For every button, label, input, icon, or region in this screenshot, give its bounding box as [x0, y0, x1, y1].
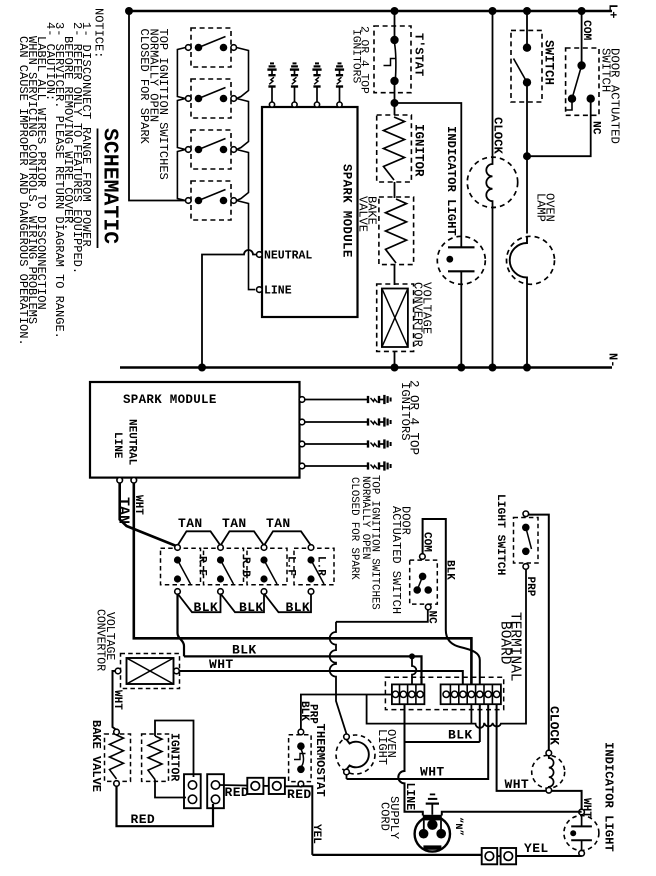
- wire: bake valve to voltage convertor: [394, 265, 396, 285]
- terminal board right block: [441, 684, 501, 704]
- svg-text:RED: RED: [225, 785, 250, 800]
- svg-text:SWITCH: SWITCH: [542, 40, 556, 85]
- svg-text:SPARK MODULE: SPARK MODULE: [340, 164, 354, 258]
- square connector 2: [269, 778, 285, 794]
- square connector 1: [247, 778, 263, 794]
- svg-text:NEUTRAL: NEUTRAL: [126, 419, 138, 466]
- terminal board left block: [392, 684, 425, 704]
- wire: WHT line to board r6: [347, 704, 489, 779]
- svg-text:R.F: R.F: [196, 556, 208, 576]
- wire: convertor WHT output to board r3: [179, 671, 463, 684]
- bake valve (schematic): [379, 197, 414, 265]
- wire: COM riser BLK to board r5: [423, 519, 480, 684]
- node: rail junction to clock: [489, 7, 497, 15]
- ignitor (wiring): [142, 734, 169, 781]
- wire: thermostat bottom to YEL drop: [301, 786, 312, 855]
- wire: rail to door switch COM: [581, 11, 583, 66]
- svg-text:BLK: BLK: [239, 600, 264, 615]
- node: rail junction to T-STAT: [391, 7, 399, 15]
- svg-text:TAN: TAN: [178, 516, 203, 531]
- node: NEUTRAL joins N- rail: [198, 364, 206, 372]
- svg-text:CLOCK: CLOCK: [547, 706, 562, 745]
- burner ignition switch 3 (wiring): [247, 548, 287, 585]
- svg-text:T'STAT: T'STAT: [412, 33, 426, 76]
- svg-text:ACTUATED SWITCH: ACTUATED SWITCH: [389, 506, 403, 614]
- wire: clock to N- rail: [492, 207, 494, 368]
- svg-text:BLK: BLK: [448, 728, 473, 743]
- wire: switch common down to BLK rail: [176, 594, 178, 633]
- wire: light switch top to clock riser: [529, 515, 549, 751]
- ignitor (schematic): [377, 115, 412, 182]
- spark module box (schematic): [262, 107, 358, 317]
- wire+electrode: ignitor 4 (wiring): [305, 465, 368, 467]
- wire: jumper line thermostat-net to light switch with hops: [367, 569, 526, 728]
- ground symbol at supply cord: [431, 804, 433, 815]
- svg-text:NC: NC: [426, 611, 438, 625]
- svg-text:BAKE VALVE: BAKE VALVE: [89, 720, 103, 792]
- svg-text:BLK: BLK: [232, 643, 257, 658]
- spark module box (wiring): [90, 382, 300, 478]
- node: rail junction to door actuated switch: [578, 7, 586, 15]
- wire+electrode: ignitor 3 (wiring): [305, 443, 368, 445]
- terminal: ignitor output 3 (wiring): [299, 441, 305, 447]
- wire: RED from bake valve to connector: [117, 786, 214, 826]
- burner ignition switch 1 (wiring): [161, 548, 201, 585]
- svg-text:WHT: WHT: [111, 690, 123, 710]
- spark ignitor electrode 1 (schematic): [269, 102, 274, 107]
- connector block 1: [184, 774, 201, 808]
- burner ignition switch 2 (wiring): [204, 548, 244, 585]
- svg-text:LIGHT: LIGHT: [375, 729, 389, 765]
- svg-text:YEL: YEL: [524, 841, 549, 856]
- wire: YEL line to squares: [312, 854, 481, 856]
- terminal: ignitor output 2 (wiring): [299, 419, 305, 425]
- spark ignitor electrode 4 (schematic): [337, 102, 342, 107]
- svg-text:CLOSED FOR SPARK: CLOSED FOR SPARK: [348, 477, 360, 580]
- svg-text:IGNITORS: IGNITORS: [398, 382, 412, 441]
- oven lamp (schematic): [507, 236, 555, 284]
- svg-text:LINE: LINE: [403, 783, 416, 811]
- svg-text:TAN: TAN: [222, 516, 247, 531]
- wire: left chain of ignition switches: [177, 48, 185, 99]
- wire: squares to thermostat: [263, 785, 268, 787]
- svg-text:N-: N-: [606, 353, 620, 367]
- wire: oven light feed with hops over rails: [330, 622, 347, 734]
- wire: L+ supply rail: [129, 10, 612, 13]
- wire: oven lamp to N- rail: [526, 284, 528, 368]
- svg-text:NEUTRAL: NEUTRAL: [264, 250, 312, 263]
- wire: NC line from door switch to oven light: [336, 610, 428, 622]
- svg-text:CORD: CORD: [378, 802, 392, 831]
- svg-text:WHT: WHT: [505, 777, 530, 792]
- wire: TAN from module with label: [120, 483, 178, 547]
- svg-text:CONVERTOR: CONVERTOR: [411, 282, 425, 347]
- thermostat (wiring): [289, 735, 312, 782]
- svg-text:L.F: L.F: [285, 556, 297, 576]
- wire: oven light bottom to WHT line: [346, 775, 348, 779]
- oven lamp switch (schematic): [511, 30, 542, 102]
- wire: WHT from module down and right to board: [134, 483, 472, 684]
- wire: clock bottom to indicator light top: [552, 791, 582, 810]
- svg-text:INDICATOR LIGHT: INDICATOR LIGHT: [602, 742, 616, 852]
- svg-text:SPARK MODULE: SPARK MODULE: [123, 393, 217, 407]
- svg-text:IGNITOR: IGNITOR: [168, 733, 181, 781]
- svg-text:COM: COM: [580, 20, 592, 41]
- wire: BLK rail to terminal board: [184, 656, 422, 684]
- svg-text:TAN: TAN: [266, 516, 291, 531]
- wire: rail to clock: [492, 11, 494, 158]
- svg-text:L.R: L.R: [315, 556, 327, 576]
- spark ignitor electrode 2 (schematic): [292, 102, 297, 107]
- svg-text:LINE: LINE: [264, 285, 292, 298]
- terminal: module NEUTRAL/WHT (wiring): [131, 477, 137, 483]
- svg-text:LIGHT SWITCH: LIGHT SWITCH: [494, 494, 506, 576]
- top ignition switch S3 (schematic): [191, 130, 231, 169]
- svg-text:LINE: LINE: [111, 432, 123, 459]
- svg-text:INDICATOR LIGHT: INDICATOR LIGHT: [444, 126, 458, 236]
- svg-text:LAMP: LAMP: [534, 193, 548, 222]
- svg-text:BOARD: BOARD: [497, 621, 513, 665]
- spark ignitor electrode 3 (schematic): [314, 102, 319, 107]
- node: rail junction to ignition switches: [125, 7, 133, 15]
- square connector 4: [501, 848, 516, 864]
- wire: board r4 down to jumper line: [470, 704, 472, 723]
- svg-text:BLK: BLK: [444, 560, 456, 580]
- wire+electrode: ignitor 1 (wiring): [305, 399, 368, 401]
- svg-text:R.B: R.B: [239, 557, 251, 577]
- terminal board dashed outline: [385, 677, 503, 709]
- wire: BLK chain linking switch bottoms: [178, 594, 221, 613]
- burner ignition switch 4 (wiring): [294, 548, 334, 585]
- terminal NEUTRAL (schematic): [257, 252, 263, 258]
- svg-text:CLOCK: CLOCK: [491, 117, 505, 155]
- indicator light (schematic): [437, 236, 485, 284]
- indicator light (wiring): [564, 816, 599, 851]
- svg-text:THERMOSTAT: THERMOSTAT: [313, 724, 327, 797]
- voltage convertor (schematic): [377, 284, 414, 351]
- wire: indicator light to N- rail: [460, 284, 462, 368]
- svg-text:BLK: BLK: [194, 600, 219, 615]
- wire: ignitor to bake valve: [394, 182, 396, 198]
- svg-text:IGNITOR: IGNITOR: [412, 124, 426, 177]
- wire: right chain of ignition switches to LINE: [237, 48, 249, 99]
- wire: ignitor top to connector block: [155, 721, 194, 778]
- svg-text:VALVE: VALVE: [356, 196, 370, 232]
- voltage convertor (wiring): [121, 654, 180, 689]
- svg-text:CONVERTOR: CONVERTOR: [94, 609, 107, 671]
- wire: TAN bus linking switch tops: [178, 531, 221, 545]
- wire: board r7 down to clock WHT line: [497, 704, 546, 791]
- title underline: [97, 129, 99, 249]
- wire: plug to indicator light WHT: [442, 812, 582, 816]
- wire: T-STAT to ignitor, node to indicator light: [394, 81, 396, 115]
- clock (schematic): [467, 157, 517, 207]
- svg-text:PRP: PRP: [524, 577, 536, 597]
- top ignition switch S4 (schematic): [191, 181, 231, 220]
- wire: N- rail: [120, 366, 612, 369]
- wire: door switch NC to oven lamp line: [527, 99, 591, 157]
- svg-text:“N”: “N”: [452, 817, 464, 836]
- svg-text:BLK: BLK: [286, 600, 311, 615]
- wire: convertor left to bake valve, WHT: [113, 671, 117, 730]
- wire: ignitor bottom to connector block: [155, 780, 186, 798]
- svg-text:RED: RED: [287, 787, 312, 802]
- wire: voltage convertor to N- rail: [394, 351, 396, 367]
- wire: LINE drop to supply cord with hop: [398, 742, 423, 816]
- terminal: ignitor output 1 (wiring): [299, 397, 305, 403]
- svg-text:PRP: PRP: [307, 704, 319, 724]
- svg-text:CLOSED FOR SPARK: CLOSED FOR SPARK: [137, 29, 151, 145]
- svg-text:CAN CAUSE IMPROPER AND DANGERO: CAN CAUSE IMPROPER AND DANGEROUS OPERATI…: [16, 36, 30, 346]
- wire: switch to oven lamp, NC junction: [526, 82, 528, 233]
- svg-text:WHT: WHT: [420, 765, 445, 780]
- svg-text:L+: L+: [606, 4, 620, 18]
- clock (wiring): [532, 755, 565, 788]
- wire: BLK rail branch to board c3 with hop: [412, 656, 416, 684]
- door actuated switch (wiring): [410, 560, 438, 604]
- wire: rail to T-STAT: [394, 11, 396, 40]
- connector block 2: [207, 774, 224, 808]
- wire+electrode: ignitor 2 (wiring): [305, 421, 368, 423]
- wire: indicator bottom to YEL squares: [516, 855, 582, 857]
- oven light (wiring): [336, 735, 375, 774]
- wire: board c2 down, BLK line and LINE drop: [405, 704, 480, 742]
- svg-text:RED: RED: [131, 812, 156, 827]
- terminal: module LINE/TAN (wiring): [117, 477, 123, 483]
- wire: feed to top ignition switches: [129, 11, 186, 201]
- door actuated switch (schematic): [566, 48, 599, 115]
- top ignition switch S1 (schematic): [191, 28, 231, 67]
- node: rail junction to oven lamp switch: [523, 7, 531, 15]
- svg-text:WHT: WHT: [209, 657, 234, 672]
- supply cord plug: [415, 816, 450, 851]
- wire: NEUTRAL to N- rail with crossover hop: [202, 250, 257, 368]
- svg-text:IGNITORS: IGNITORS: [350, 29, 362, 83]
- svg-text:YEL: YEL: [310, 824, 322, 844]
- wire: BLK riser from thermostat to terminal board c1: [301, 695, 392, 730]
- top ignition switch S2 (schematic): [191, 79, 231, 118]
- wire: rail to switch: [526, 11, 528, 44]
- terminal: ignitor output 4 (wiring): [299, 463, 305, 469]
- wire: branch to indicator light: [395, 103, 462, 237]
- thermostat T'STAT (schematic): [374, 26, 411, 93]
- svg-text:SCHEMATIC: SCHEMATIC: [98, 128, 122, 244]
- terminal LINE (schematic): [257, 287, 263, 293]
- bake valve (wiring): [105, 734, 131, 781]
- square connector 3: [482, 848, 498, 864]
- svg-text:SWITCH: SWITCH: [599, 48, 613, 92]
- wire: RED link to square connectors: [220, 784, 248, 787]
- light switch (wiring): [514, 518, 539, 564]
- svg-text:TAN: TAN: [115, 497, 132, 524]
